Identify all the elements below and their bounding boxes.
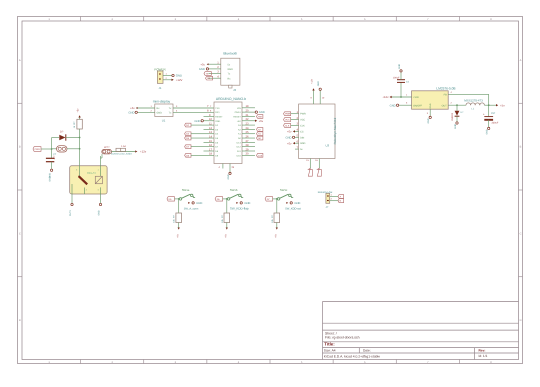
svg-text:+12V: +12V [176,78,183,82]
svg-text:SW_KDD-flap: SW_KDD-flap [230,207,249,211]
svg-text:GND: GND [228,68,234,71]
svg-text:+5v: +5v [200,63,205,66]
svg-text:21: 21 [246,114,249,117]
svg-text:VCC: VCC [300,119,305,122]
svg-text:PWR: PWR [300,113,306,116]
svg-text:Size: A4: Size: A4 [324,349,336,353]
svg-text:27: 27 [246,140,249,143]
svg-text:GND: GND [300,142,306,145]
svg-text:24: 24 [246,127,249,130]
svg-text:PWR: PWR [35,148,41,151]
svg-text:DIN: DIN [300,136,304,139]
svg-text:GND: GND [98,210,101,215]
svg-text:GND: GND [199,68,205,71]
svg-text:RobotDyn-flat: RobotDyn-flat [318,191,333,194]
svg-text:1N5822: 1N5822 [451,112,454,121]
svg-text:SW1c: SW1c [280,188,288,192]
svg-text:GND: GND [244,202,250,205]
svg-text:GND: GND [294,202,300,205]
svg-text:17: 17 [209,148,212,151]
svg-text:+5v: +5v [500,103,505,107]
svg-text:C: C [520,232,522,235]
svg-text:GND: GND [49,176,52,181]
svg-text:29: 29 [246,148,249,151]
svg-text:30: 30 [246,153,249,156]
svg-text:1.5A: 1.5A [121,145,126,148]
svg-text:Title:: Title: [324,341,335,346]
svg-text:U1: U1 [162,119,166,123]
svg-text:OUT1: OUT1 [69,209,72,216]
svg-text:KiCad E.D.A. kicad 4.0.2+df: KiCad E.D.A. kicad 4.0.2+dfsg1-stable [324,354,380,358]
svg-text:330uF: 330uF [492,121,499,124]
svg-text:GND: GND [215,120,220,123]
svg-text:12: 12 [209,127,212,130]
svg-text:VIN: VIN [237,107,241,110]
svg-text:15: 15 [209,140,212,143]
svg-text:20: 20 [246,110,249,113]
svg-text:GND: GND [427,118,430,123]
svg-text:MSS1278-473: MSS1278-473 [464,99,483,103]
svg-text:D: D [19,319,21,322]
svg-text:RobotDyn-Max7219: RobotDyn-Max7219 [333,117,337,144]
svg-text:100uF: 100uF [393,77,400,80]
svg-text:CS: CS [300,130,304,133]
svg-text:23: 23 [246,122,249,125]
svg-text:+5v: +5v [130,107,135,110]
svg-text:GND: GND [286,136,292,139]
svg-text:GND: GND [454,124,457,129]
svg-text:D: D [520,319,522,322]
svg-text:PWR: PWR [285,113,291,116]
svg-text:SW1a: SW1a [182,188,190,192]
svg-text:GND: GND [398,64,401,69]
svg-text:VCC: VCC [285,119,290,122]
svg-text:RX: RX [207,77,211,80]
svg-text:22: 22 [246,118,249,121]
svg-text:10: 10 [209,118,212,121]
svg-text:C5?: C5? [491,112,496,115]
svg-text:+12v: +12v [310,78,313,84]
svg-text:+5v: +5v [259,120,264,123]
svg-text:+5V: +5V [237,120,241,123]
svg-text:CLK: CLK [285,125,290,128]
svg-text:GND: GND [486,129,489,134]
svg-text:GND: GND [390,104,396,107]
svg-text:5x20mm_fuse_holder: 5x20mm_fuse_holder [111,153,132,156]
svg-text:GND: GND [194,120,200,123]
svg-text:25: 25 [246,131,249,134]
svg-text:+5v: +5v [287,131,292,134]
svg-text:Bluetooth: Bluetooth [223,51,237,55]
svg-text:13: 13 [209,131,212,134]
svg-text:A: A [520,59,522,62]
svg-text:C: C [19,232,21,235]
svg-text:SW_KDD-act: SW_KDD-act [285,208,301,211]
svg-text:J1: J1 [159,86,162,90]
svg-text:JP??: JP?? [104,146,110,149]
svg-text:GND: GND [317,81,320,86]
svg-text:FB: FB [444,93,447,96]
svg-text:Rev:: Rev: [479,348,486,352]
svg-text:19: 19 [246,105,249,108]
svg-text:Date:: Date: [363,349,371,353]
svg-text:GND: GND [227,174,230,179]
svg-text:OUT: OUT [442,104,448,107]
svg-text:RST: RST [258,115,263,118]
svg-text:J3: J3 [233,88,236,92]
svg-text:+VIN: +VIN [413,96,419,99]
svg-text:14: 14 [209,135,212,138]
svg-text:CLK: CLK [300,125,305,128]
svg-text:RELAY: RELAY [87,171,96,175]
svg-text:mini-display: mini-display [153,99,171,103]
svg-text:SW_A_open: SW_A_open [184,208,199,211]
svg-text:GND: GND [429,103,432,108]
svg-text:LM2576-5.0B: LM2576-5.0B [436,86,455,90]
svg-text:28: 28 [246,144,249,147]
svg-text:16: 16 [209,144,212,147]
svg-text:26: 26 [246,135,249,138]
svg-text:GND: GND [196,202,202,205]
svg-text:+12v: +12v [140,150,147,154]
svg-text:Id: 1/1: Id: 1/1 [479,354,488,358]
svg-text:D?: D? [60,130,64,133]
svg-text:GND: GND [128,111,134,114]
svg-text:GND: GND [157,112,163,115]
svg-text:ON/OFF: ON/OFF [413,104,423,107]
svg-text:U3: U3 [326,144,330,148]
svg-text:B: B [19,146,21,149]
svg-text:GND1: GND1 [235,111,242,114]
svg-text:GND: GND [259,111,265,114]
svg-text:SW1b: SW1b [230,188,238,192]
svg-text:B: B [520,146,522,149]
svg-text:18: 18 [209,153,212,156]
svg-text:+12v: +12v [382,95,389,99]
svg-text:File: rg-steel-doors.sch: File: rg-steel-doors.sch [325,336,360,340]
svg-text:A: A [19,59,21,62]
svg-text:+5v: +5v [287,142,292,145]
svg-text:RESET: RESET [215,115,223,118]
svg-text:RESET: RESET [233,115,241,118]
svg-text:ARDUINO_NANO-b: ARDUINO_NANO-b [216,97,246,101]
